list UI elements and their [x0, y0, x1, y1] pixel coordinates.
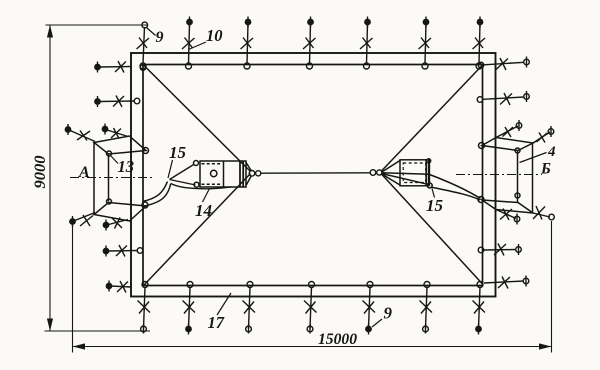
- svg-text:10: 10: [206, 26, 223, 45]
- right winch cable 15 upper: [430, 175, 481, 199]
- centerline A: [70, 177, 152, 179]
- svg-text:9000: 9000: [32, 156, 49, 189]
- guy diagonal bottom-right: [381, 174, 483, 285]
- svg-text:Б: Б: [540, 161, 551, 178]
- label 9 top: [147, 28, 164, 47]
- dim 15000 line: [73, 346, 552, 348]
- right vestibule anchor top outer: [533, 126, 554, 143]
- dim 15000 extension left: [72, 226, 74, 353]
- left anchor stake 2: [95, 96, 140, 108]
- winch drum cable under box: [171, 184, 232, 189]
- svg-text:9: 9: [384, 304, 393, 323]
- left winch body 14: [194, 161, 252, 188]
- svg-text:15000: 15000: [318, 331, 357, 348]
- bottom anchor stake 2 17: [183, 282, 196, 335]
- svg-text:14: 14: [195, 201, 212, 220]
- right vestibule frame 4: [478, 138, 533, 214]
- bottom anchor stake 4: [304, 282, 317, 334]
- right winch cable 15 lower: [431, 187, 481, 200]
- dim 15000 arrow right: [539, 343, 552, 349]
- dim 9000 line: [49, 25, 51, 331]
- top anchor stake corner-left 9: [137, 22, 150, 69]
- label 13: [111, 156, 135, 177]
- right vestibule anchor top inner: [496, 120, 522, 138]
- left vestibule anchor bottom inner: [103, 218, 128, 231]
- left vestibule frame 13: [94, 136, 149, 221]
- left vestibule anchor top inner: [102, 124, 128, 139]
- svg-text:4: 4: [547, 144, 556, 160]
- label 17: [208, 293, 232, 332]
- label 9 bottom: [372, 304, 393, 328]
- dim 15000 extension right: [551, 221, 553, 353]
- dim 9000 arrow up: [47, 25, 53, 38]
- central tie cable: [261, 172, 372, 174]
- right anchor stake top corner: [478, 57, 529, 71]
- top anchor stake 4: [303, 17, 316, 70]
- centerline B: [456, 174, 542, 176]
- bottom anchor stake 5 9: [363, 282, 376, 335]
- svg-text:13: 13: [118, 157, 135, 176]
- left anchor stake bottom corner: [106, 281, 131, 293]
- right winch body: [382, 159, 433, 188]
- guy diagonal top-left: [144, 65, 251, 172]
- left winch cable 15 to wall: [143, 182, 168, 202]
- left anchor stake 3: [103, 245, 143, 257]
- building inner wall: [143, 65, 483, 286]
- label 15 left: [168, 143, 187, 178]
- top anchor stake corner-right: [473, 17, 486, 70]
- bottom anchor stake 6: [420, 282, 433, 334]
- dim 9000 extension top: [46, 24, 149, 26]
- left winch tip shackle: [249, 171, 261, 177]
- svg-text:15: 15: [426, 196, 444, 215]
- right anchor stake 2: [477, 91, 529, 105]
- left winch cable 15 lower: [145, 184, 171, 207]
- label 15 right: [426, 189, 444, 216]
- bottom anchor stake corner-right: [473, 282, 486, 335]
- dim 9000 arrow down: [47, 319, 53, 332]
- dim 15000 arrow left: [73, 343, 86, 349]
- top anchor stake 6: [419, 17, 432, 70]
- svg-text:9: 9: [156, 29, 164, 46]
- right vestibule anchor bottom inner: [496, 209, 520, 225]
- left anchor stake top corner: [95, 61, 146, 73]
- building outer wall: [131, 53, 496, 297]
- left vestibule anchor top outer: [65, 124, 95, 142]
- guy diagonal bottom-left: [144, 174, 251, 286]
- bottom anchor stake corner-left: [138, 282, 151, 334]
- left winch pull lines to apex: [170, 164, 196, 185]
- svg-text:17: 17: [208, 313, 225, 332]
- svg-text:15: 15: [169, 143, 187, 162]
- right anchor stake bottom corner: [484, 276, 529, 289]
- label 14: [195, 189, 212, 221]
- right vestibule anchor bottom outer: [533, 206, 554, 220]
- top anchor stake 5: [360, 17, 373, 70]
- guy diagonal top-right: [381, 65, 483, 172]
- top anchor stake 3: [241, 17, 254, 70]
- left vestibule anchor bottom outer: [70, 213, 95, 228]
- label 4: [520, 144, 557, 163]
- svg-text:А: А: [78, 164, 90, 181]
- right winch tip shackle: [370, 170, 382, 176]
- bottom anchor stake 3: [243, 282, 256, 334]
- top anchor stake 2 10: [182, 17, 195, 70]
- dim 9000 extension bottom: [45, 330, 151, 332]
- label 10: [189, 26, 223, 50]
- right anchor stake 3: [478, 244, 521, 256]
